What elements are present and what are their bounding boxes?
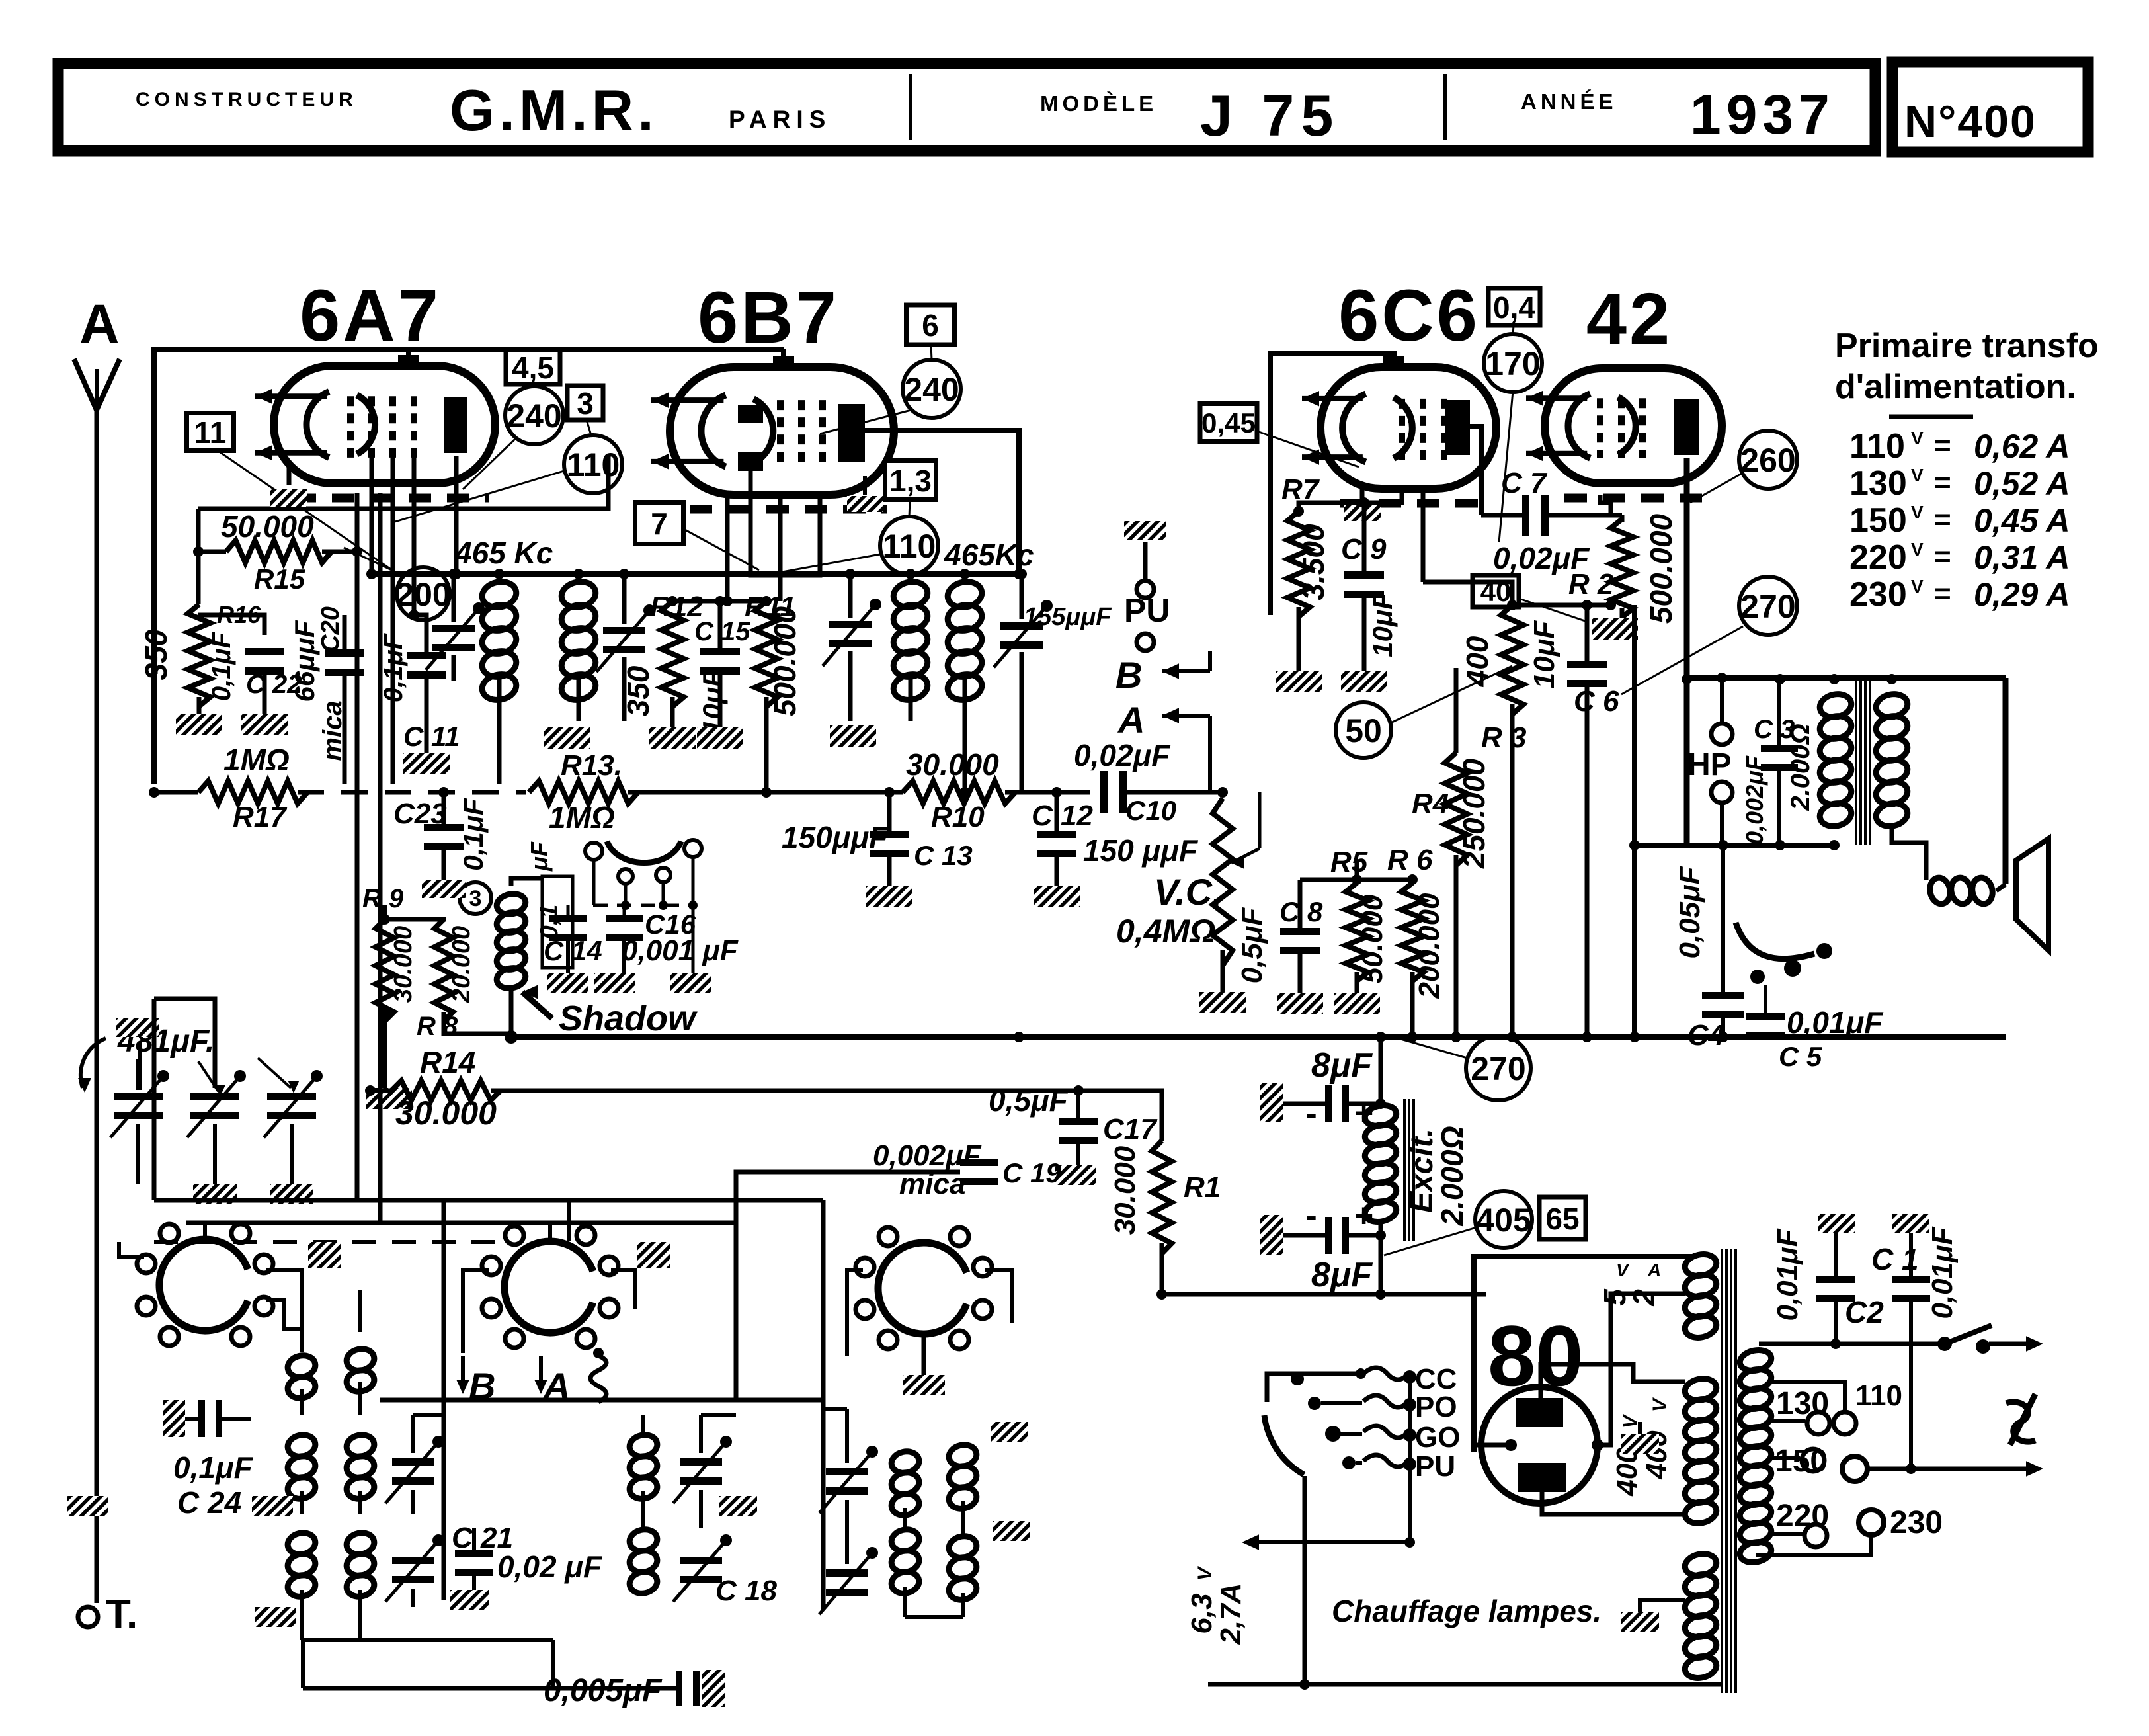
wire PT top	[1693, 1256, 1701, 1257]
wire C12	[1055, 792, 1059, 831]
svg-text:C 14: C 14	[544, 935, 602, 966]
resistor R6 200.000	[1401, 883, 1424, 981]
wire screen drop 42	[1632, 605, 1637, 1037]
svg-text:10μF: 10μF	[1528, 620, 1561, 688]
svg-text:150 μμF: 150 μμF	[1083, 833, 1199, 868]
RF coil s3 3	[947, 1442, 979, 1511]
resistor R2	[1611, 519, 1633, 618]
boxed value 11	[187, 413, 234, 451]
svg-text:42: 42	[1586, 278, 1672, 360]
ground IF2	[830, 725, 876, 747]
svg-text:ANNÉE: ANNÉE	[1521, 89, 1617, 114]
circled 110 (6B7 screen V)	[880, 517, 938, 575]
tone contact 3	[1750, 970, 1765, 984]
svg-text:R15: R15	[254, 563, 305, 595]
svg-text:50.000: 50.000	[1356, 894, 1389, 983]
wire mains arrow bottom	[1867, 1467, 2035, 1471]
wire R1 bottom	[1160, 1243, 1164, 1294]
wire C20 top	[345, 552, 357, 648]
wire t3	[290, 1124, 294, 1184]
wire 8uF upper lead	[1283, 1102, 1326, 1106]
wire t1	[138, 1042, 142, 1090]
resistor R17 1Mohm	[198, 781, 307, 804]
boxed value 0,4	[1488, 288, 1540, 325]
wire R12 bottom	[670, 697, 675, 727]
antenna symbol	[74, 359, 120, 410]
trimmer cap IF1 primary	[426, 602, 485, 670]
svg-text:2: 2	[1627, 1289, 1661, 1307]
RF coil s3 1	[889, 1449, 921, 1518]
trimmer cap IF1 secondary	[596, 604, 655, 672]
svg-text:4,5: 4,5	[512, 351, 554, 385]
wire R5 bottom	[1355, 972, 1359, 993]
ground C21	[450, 1590, 489, 1610]
svg-text:A: A	[542, 1365, 570, 1407]
ground small top1	[308, 1242, 341, 1268]
ground 6C6 k	[1344, 504, 1381, 521]
svg-text:G.M.R.: G.M.R.	[450, 77, 658, 143]
pointer 0,4-170	[1513, 325, 1514, 335]
wire gang feed 3	[292, 1012, 370, 1091]
svg-text:0,02 μF: 0,02 μF	[497, 1550, 603, 1584]
wire C24	[185, 1417, 198, 1421]
svg-text:10μF: 10μF	[1367, 592, 1398, 657]
ant coil mid 1	[286, 1432, 317, 1501]
wire socket1 feed	[153, 1200, 155, 1242]
wire vc to spk	[1996, 884, 2006, 891]
svg-text:10μF: 10μF	[697, 669, 728, 735]
tube socket 3 (ant/RF coil)	[856, 1227, 992, 1349]
svg-text:240: 240	[904, 371, 959, 408]
IF1 primary coil	[480, 579, 519, 703]
selector common rail	[1408, 1377, 1412, 1542]
svg-text:=: =	[1934, 429, 1951, 462]
wire C21	[472, 1528, 476, 1550]
pointer 481 b	[258, 1058, 291, 1088]
selector wiper	[1264, 1415, 1304, 1475]
pointer 4,5-240	[533, 384, 534, 386]
ground C23	[422, 880, 466, 898]
resistor R12	[661, 601, 684, 707]
svg-text:Primaire transfo: Primaire transfo	[1835, 327, 2099, 365]
ground C17	[1055, 1165, 1096, 1185]
wire fil lines	[1554, 1293, 1685, 1294]
resistor R8 20.000	[434, 919, 453, 1021]
variable cap gang 1	[110, 1070, 169, 1137]
svg-text:500.000: 500.000	[768, 606, 802, 716]
trimmer cap IF2 primary	[823, 599, 881, 666]
wire C19 right	[998, 1091, 1032, 1172]
svg-text:0,1μF: 0,1μF	[379, 632, 408, 702]
wire C9	[1362, 503, 1367, 571]
wire coilbox left	[152, 999, 157, 1200]
wire socket3 bottom bus	[905, 1616, 963, 1618]
wire 465kc bus	[372, 571, 1019, 577]
OT core	[1855, 679, 1857, 845]
padder cap 3	[673, 1436, 732, 1503]
boxed value 4,5	[506, 350, 560, 385]
wire R4 bottom	[1454, 855, 1459, 1037]
wire mains top	[1759, 1342, 1945, 1346]
wire R15 right	[322, 550, 357, 554]
resistor R10 30.000	[903, 781, 1016, 804]
ground 6B7 cathode	[863, 476, 867, 495]
capacitor 8uF upper	[1325, 1085, 1349, 1122]
svg-text:J 75: J 75	[1200, 83, 1340, 148]
svg-text:50.000: 50.000	[221, 509, 314, 544]
svg-text:0,62 A: 0,62 A	[1974, 428, 2070, 465]
boxed value 65	[1539, 1197, 1586, 1239]
svg-text:130: 130	[1849, 464, 1907, 503]
svg-text:=: =	[1934, 466, 1951, 499]
tube 6C6 (AF preamp)	[1302, 356, 1496, 503]
wire Excit bottom	[1379, 1220, 1383, 1294]
svg-text:400: 400	[1611, 1447, 1643, 1497]
wire socket3 pins	[923, 1223, 924, 1243]
svg-text:220: 220	[1776, 1499, 1829, 1534]
trimmer cap IF2 secondary 155uuF	[994, 600, 1053, 667]
svg-text:65: 65	[1545, 1202, 1579, 1236]
wire coil links2	[300, 1491, 304, 1514]
svg-text:C 12: C 12	[1032, 800, 1093, 832]
wire IF2 tops	[905, 569, 916, 579]
wire 6B7 plate	[865, 431, 1019, 574]
ground R16	[176, 714, 222, 735]
wire C2	[1834, 1233, 1838, 1276]
svg-text:0,52 A: 0,52 A	[1974, 465, 2070, 502]
wire 6A7 pin g2	[391, 456, 395, 522]
wire heater right	[1722, 1673, 1723, 1684]
wire R5R6 up	[1355, 860, 1359, 880]
wire C22 top	[198, 615, 264, 635]
svg-text:B: B	[1115, 654, 1142, 696]
wire bus2	[491, 1089, 1158, 1093]
variable cap gang 2	[187, 1070, 246, 1137]
boxed value 6	[907, 305, 955, 345]
rectifier side dots	[1505, 1439, 1517, 1451]
capacitor C18 0,005uF	[676, 1671, 700, 1706]
capacitor C7 0,02uF	[1522, 495, 1549, 536]
resistor R3 400	[1501, 605, 1523, 714]
wire IF2 trim2	[1020, 574, 1024, 619]
RF coil mid 1	[628, 1432, 659, 1501]
wire C7 left	[1481, 513, 1523, 518]
svg-text:3: 3	[469, 886, 482, 911]
svg-text:C 13: C 13	[914, 840, 973, 871]
wire IF1 tops	[497, 574, 502, 585]
svg-text:0,05μF: 0,05μF	[1674, 866, 1706, 958]
ground C2	[1818, 1214, 1855, 1233]
svg-text:8μF: 8μF	[1311, 1046, 1373, 1085]
ground R7	[1276, 671, 1322, 692]
wire bus3 end	[1486, 1257, 1487, 1294]
resistor R11	[755, 601, 778, 707]
pointer 200	[344, 548, 400, 574]
ground C16	[594, 973, 635, 993]
capacitor C5 0,01uF	[1746, 1013, 1785, 1040]
padder cap 2	[385, 1534, 444, 1602]
svg-text:N°400: N°400	[1904, 97, 2037, 147]
selector contact PU	[1342, 1456, 1356, 1469]
wire pivot drop R	[692, 857, 695, 905]
wire s3 bottom	[903, 1587, 907, 1617]
circled 200 (osc anode V)	[395, 567, 450, 620]
pointer 481 a	[198, 1061, 218, 1091]
pointer 270b	[1382, 1034, 1467, 1058]
terminal PU 2	[1137, 634, 1154, 651]
wire rect plate bottom	[1542, 1492, 1685, 1514]
ground s3 2	[993, 1521, 1030, 1541]
wire far left	[87, 1516, 89, 1607]
ground C12	[1034, 886, 1080, 907]
circled 50	[1336, 702, 1391, 758]
capacitor C8 0,5uF	[1280, 928, 1320, 954]
circled 260 (42 plate V)	[1739, 431, 1797, 489]
svg-text:465Kc: 465Kc	[944, 538, 1034, 572]
potentiometer VC 0,4M	[1213, 798, 1233, 966]
svg-text:0,4: 0,4	[1493, 290, 1535, 325]
pointer 240a	[463, 438, 516, 489]
svg-text:200: 200	[395, 576, 450, 613]
wire socket2 pin r2	[598, 1316, 611, 1353]
svg-text:155μμF: 155μμF	[1024, 603, 1112, 631]
terminal common	[1842, 1456, 1867, 1481]
wire trimmer links box	[413, 1413, 444, 1417]
wire socket3 pin r	[985, 1270, 1012, 1323]
shadow pivot L	[585, 843, 602, 860]
circled 270 (screen supply)	[1739, 577, 1797, 635]
svg-text:240: 240	[507, 397, 561, 434]
svg-text:V: V	[1911, 428, 1924, 448]
wire R7 top	[1299, 489, 1402, 511]
capacitor C12	[1037, 831, 1076, 857]
tone contact 2	[1784, 960, 1801, 977]
svg-text:C 24: C 24	[177, 1485, 241, 1520]
wire R2 top	[1620, 515, 1625, 519]
wire 8uF upper right	[1349, 1102, 1381, 1106]
tone contact 1	[1816, 943, 1832, 959]
wire socket1 pin left	[119, 1242, 144, 1257]
wire IF2 prim bottom	[909, 678, 913, 721]
wire R8 bottom	[444, 1012, 512, 1034]
wire s3 trim	[845, 1409, 849, 1463]
rectifier tube 80	[1481, 1387, 1598, 1503]
svg-text:R1: R1	[1184, 1171, 1221, 1204]
IF2 primary coil	[891, 579, 930, 703]
wire coil links1	[300, 1389, 304, 1415]
svg-text:50: 50	[1345, 712, 1382, 749]
antenna lead wire	[95, 410, 99, 1603]
resistor R4 250.000	[1445, 753, 1467, 866]
svg-text:150μμF: 150μμF	[782, 820, 889, 854]
wire 42 plate drop	[1684, 458, 1690, 845]
wire bus3	[1162, 1292, 1486, 1297]
ground C14	[547, 973, 588, 993]
wire 8uF lower right	[1349, 1233, 1381, 1238]
wire C4 top	[1721, 845, 1725, 992]
ground heater	[1621, 1612, 1659, 1632]
resistor R7 3500	[1287, 511, 1310, 617]
ground R12	[649, 727, 696, 749]
circled 3 (small)	[460, 882, 491, 914]
svg-text:C23: C23	[393, 798, 447, 830]
switch loops	[590, 1356, 606, 1402]
svg-text:1,3: 1,3	[889, 464, 932, 498]
wire C11 bottom	[425, 679, 429, 753]
svg-text:V.C.: V.C.	[1154, 871, 1223, 913]
mains plug symbol	[2006, 1402, 2035, 1442]
shadow dashed h	[593, 904, 691, 907]
wire top bus antenna box	[154, 349, 409, 784]
divider 2	[1443, 74, 1447, 140]
pointer 110b	[764, 554, 880, 575]
tap 220	[1771, 1532, 1803, 1536]
wire socket2 pin l	[463, 1270, 489, 1353]
svg-text:V: V	[1911, 502, 1924, 522]
svg-text:405: 405	[1476, 1202, 1531, 1239]
svg-text:20.000: 20.000	[448, 926, 475, 1003]
wire IF1 trim	[452, 574, 456, 622]
svg-text:66μμF: 66μμF	[289, 620, 320, 702]
wire OT sec to speaker	[1892, 825, 1926, 880]
wire R9 up	[383, 905, 387, 919]
svg-text:350: 350	[621, 665, 655, 716]
RF coil s3 2	[889, 1527, 921, 1596]
wire R16 bottom	[197, 697, 202, 714]
svg-text:PU: PU	[1415, 1450, 1455, 1483]
capacitor 8uF lower	[1325, 1217, 1349, 1254]
svg-text:6C6: 6C6	[1338, 275, 1480, 356]
wire t1 b	[136, 1124, 140, 1184]
AVC bus dashed	[298, 790, 526, 795]
wire R6 bottom	[1410, 972, 1415, 1037]
svg-text:0,4MΩ: 0,4MΩ	[1116, 913, 1215, 950]
wire long drop 6A7b	[355, 493, 360, 1200]
resistor 42 screen feed 500.000	[1692, 511, 1693, 512]
svg-text:C 18: C 18	[715, 1575, 777, 1607]
svg-text:CONSTRUCTEUR: CONSTRUCTEUR	[136, 89, 358, 110]
svg-text:200.000: 200.000	[1413, 893, 1445, 999]
circled 170 (6C6 plate V)	[1484, 334, 1542, 392]
resistor R1 30.000	[1152, 1141, 1172, 1254]
wire 42 cath bus	[1610, 519, 1611, 605]
wire mains arrow top	[1989, 1342, 2035, 1346]
boxed value 7	[635, 503, 684, 544]
wire s3 links	[903, 1508, 907, 1528]
OT primary winding	[1818, 691, 1853, 829]
wire coilbox v1	[442, 1200, 446, 1600]
wire OT top rail	[1687, 675, 2006, 681]
svg-text:3: 3	[577, 386, 594, 421]
wire PT center tap	[1638, 1422, 1642, 1434]
shadow dial arc	[607, 841, 681, 863]
capacitor C15 10uF	[700, 648, 740, 675]
svg-text:R 8: R 8	[417, 1012, 458, 1041]
wire C1	[1909, 1233, 1913, 1276]
ground R9	[366, 1088, 412, 1109]
svg-text:R10: R10	[931, 801, 985, 833]
svg-text:-: -	[1306, 1197, 1317, 1234]
svg-text:HP: HP	[1687, 747, 1732, 782]
PT primary top winding 5V	[1683, 1251, 1719, 1340]
wire heater gnd	[1640, 1600, 1685, 1612]
title block N400 frame	[1892, 62, 2088, 152]
wire shadow bottom	[509, 985, 514, 1037]
mains switch	[1937, 1337, 1952, 1351]
svg-text:C 15: C 15	[694, 617, 750, 646]
wire C18 left	[553, 1686, 677, 1691]
wire 6B7 diode	[750, 471, 820, 575]
svg-text:V: V	[1911, 576, 1924, 597]
svg-text:30.000: 30.000	[1109, 1145, 1141, 1235]
capacitor C13 150uuF	[870, 831, 909, 857]
svg-text:230: 230	[1849, 575, 1907, 614]
osc coil small 2	[345, 1346, 376, 1394]
tap 130	[1771, 1419, 1805, 1423]
wire PT sec top	[1756, 1343, 1759, 1344]
wire R7 bottom	[1297, 607, 1301, 671]
svg-text:2,7A: 2,7A	[1215, 1583, 1247, 1645]
svg-text:=: =	[1934, 503, 1951, 536]
svg-text:R13.: R13.	[561, 749, 622, 782]
wire R10-C10	[1005, 790, 1090, 795]
tap 150	[1771, 1456, 1800, 1460]
boxed value 3	[567, 386, 603, 421]
wire coilbox v3	[821, 1200, 826, 1610]
selector contact CC	[1291, 1372, 1304, 1385]
wire PT sec top loop	[1756, 1343, 1759, 1344]
B+ bus	[512, 1034, 2006, 1040]
circled 270 (field supply)	[1466, 1036, 1531, 1100]
pointer 7	[684, 529, 759, 570]
wire R3 bottom	[1510, 704, 1515, 1037]
svg-text:7: 7	[651, 507, 668, 541]
svg-text:B: B	[469, 1365, 495, 1407]
svg-text:0,01μF: 0,01μF	[1926, 1226, 1959, 1319]
IF2 secondary coil	[946, 579, 985, 703]
selector contact GO	[1325, 1426, 1341, 1442]
ground tuning 2	[193, 1184, 237, 1204]
svg-text:350: 350	[139, 629, 173, 680]
wire R15 left	[196, 509, 201, 604]
pointer 6-240	[931, 345, 932, 360]
ground C11	[403, 753, 450, 774]
wire sock1-sock2 row	[251, 1269, 344, 1270]
capacitor C1 0,01uF	[1892, 1276, 1930, 1302]
ground coil 1	[252, 1496, 293, 1516]
AVC dashed into box	[154, 1240, 509, 1244]
AVC bus left	[154, 790, 198, 795]
svg-text:0,1μF: 0,1μF	[458, 798, 489, 871]
ground tuning 3	[270, 1184, 313, 1204]
svg-text:=: =	[1934, 577, 1951, 610]
tube 6B7 (IF/det)	[651, 356, 894, 509]
svg-text:C 11: C 11	[403, 721, 460, 752]
IF1 secondary bottom	[577, 678, 581, 721]
wire socket2 pin r	[611, 1270, 635, 1309]
svg-text:R7: R7	[1281, 474, 1320, 506]
wire gang up 1	[136, 1059, 140, 1090]
capacitor C3 0,002uF	[1761, 745, 1798, 771]
wire C6 bottom	[1585, 687, 1590, 1037]
svg-text:R 9: R 9	[362, 884, 404, 913]
svg-text:270: 270	[1471, 1050, 1525, 1087]
shadow pivot 2	[618, 869, 633, 884]
wire C5	[1764, 985, 1767, 1013]
tap 230	[1859, 1510, 1884, 1535]
svg-text:C10: C10	[1125, 795, 1176, 826]
boxed value 40	[1473, 575, 1519, 607]
